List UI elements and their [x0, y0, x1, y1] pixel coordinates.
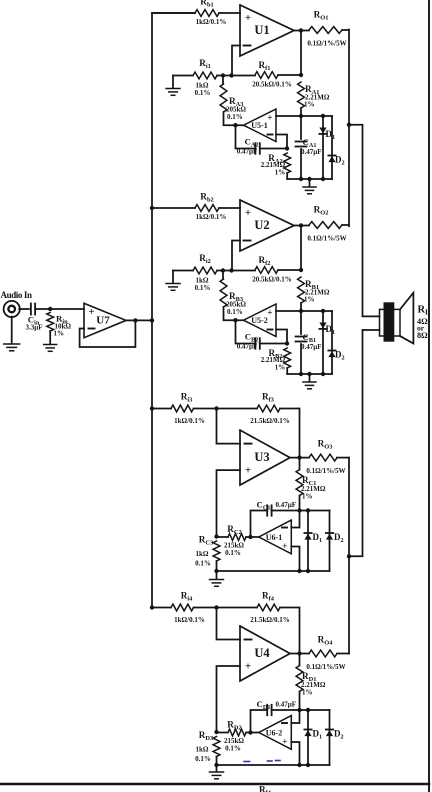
- svg-text:U6-2: U6-2: [266, 729, 282, 738]
- svg-text:0.1Ω/1%/5W: 0.1Ω/1%/5W: [307, 235, 346, 243]
- svg-text:21.5kΩ/0.1%: 21.5kΩ/0.1%: [250, 417, 289, 425]
- svg-text:1%: 1%: [275, 169, 286, 177]
- svg-text:+: +: [282, 541, 287, 551]
- svg-text:3.3µF: 3.3µF: [25, 324, 42, 332]
- svg-text:0.47µF: 0.47µF: [301, 343, 322, 351]
- svg-text:1kΩ/0.1%: 1kΩ/0.1%: [196, 18, 227, 26]
- svg-text:1kΩ: 1kΩ: [196, 550, 209, 558]
- svg-text:0.47µF: 0.47µF: [237, 148, 258, 156]
- svg-text:+: +: [267, 308, 272, 318]
- svg-text:U4: U4: [254, 646, 270, 660]
- svg-text:1kΩ/0.1%: 1kΩ/0.1%: [196, 213, 227, 221]
- svg-text:0.1%: 0.1%: [227, 113, 243, 121]
- svg-text:1kΩ/0.1%: 1kΩ/0.1%: [174, 417, 205, 425]
- svg-text:U3: U3: [254, 450, 269, 464]
- svg-text:20.5kΩ/0.1%: 20.5kΩ/0.1%: [252, 81, 291, 89]
- svg-text:0.1%: 0.1%: [227, 308, 243, 316]
- svg-text:+: +: [89, 307, 95, 318]
- svg-text:+: +: [282, 737, 287, 747]
- svg-text:+: +: [245, 207, 251, 219]
- svg-text:1%: 1%: [302, 493, 313, 501]
- svg-text:U2: U2: [254, 218, 269, 232]
- svg-text:0.1%: 0.1%: [195, 89, 211, 97]
- svg-text:20.5kΩ/0.1%: 20.5kΩ/0.1%: [252, 276, 291, 284]
- svg-text:21.5kΩ/0.1%: 21.5kΩ/0.1%: [250, 616, 289, 624]
- svg-text:0.47µF: 0.47µF: [276, 501, 297, 509]
- svg-text:0.47µF: 0.47µF: [301, 148, 322, 156]
- svg-text:U7: U7: [96, 315, 110, 327]
- svg-text:+: +: [245, 661, 251, 673]
- svg-text:0.1%: 0.1%: [225, 745, 241, 753]
- svg-text:1kΩ/0.1%: 1kΩ/0.1%: [174, 616, 205, 624]
- svg-text:+: +: [245, 465, 251, 477]
- svg-text:1%: 1%: [54, 330, 65, 338]
- svg-text:U6-1: U6-1: [266, 533, 282, 542]
- svg-text:+: +: [245, 12, 251, 24]
- svg-text:0.1Ω/1%/5W: 0.1Ω/1%/5W: [306, 663, 345, 671]
- svg-text:U5-2: U5-2: [251, 316, 267, 325]
- svg-text:0.1Ω/1%/5W: 0.1Ω/1%/5W: [307, 40, 346, 48]
- svg-text:0.47µF: 0.47µF: [237, 343, 258, 351]
- svg-text:1%: 1%: [302, 689, 313, 697]
- svg-text:0.47µF: 0.47µF: [276, 701, 297, 709]
- svg-text:0.1%: 0.1%: [195, 560, 211, 568]
- svg-text:U1: U1: [254, 23, 269, 37]
- svg-text:8Ω: 8Ω: [417, 331, 428, 340]
- svg-text:+: +: [267, 113, 272, 123]
- svg-text:0.1%: 0.1%: [195, 284, 211, 292]
- svg-text:1%: 1%: [304, 101, 315, 109]
- svg-text:0.1%: 0.1%: [225, 549, 241, 557]
- svg-text:0.1Ω/1%/5W: 0.1Ω/1%/5W: [306, 467, 345, 475]
- svg-text:1%: 1%: [304, 296, 315, 304]
- svg-text:U5-1: U5-1: [251, 121, 267, 130]
- svg-text:Audio In: Audio In: [1, 290, 32, 300]
- svg-text:1%: 1%: [275, 364, 286, 372]
- svg-text:0.1%: 0.1%: [195, 755, 211, 763]
- svg-text:1kΩ: 1kΩ: [196, 746, 209, 754]
